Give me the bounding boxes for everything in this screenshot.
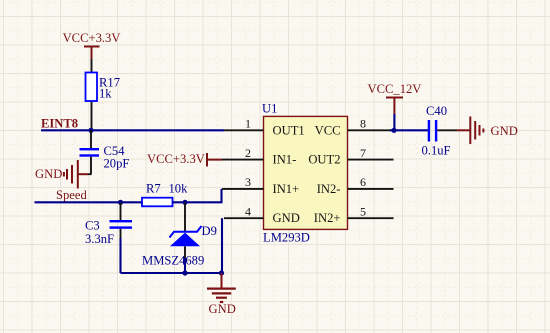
svg-text:VCC+3.3V: VCC+3.3V [147, 152, 205, 166]
svg-text:7: 7 [360, 146, 366, 160]
wire Speed [35, 201, 143, 203]
resistor R1 pins [91, 59, 93, 130]
power VCC_12V [368, 82, 422, 114]
svg-text:20pF: 20pF [104, 157, 130, 171]
capacitor C54 pins [88, 130, 92, 174]
junction D9/bottom [182, 270, 187, 275]
svg-text:GND: GND [209, 302, 236, 316]
junction R7/D9 [182, 200, 187, 205]
svg-text:MMSZ4689: MMSZ4689 [142, 254, 204, 268]
svg-text:OUT1: OUT1 [273, 123, 305, 137]
svg-text:2: 2 [245, 146, 251, 160]
wire C3 to bottom [119, 238, 121, 273]
svg-text:GND: GND [491, 124, 518, 138]
pin 7 [348, 159, 394, 161]
svg-text:IN2+: IN2+ [314, 211, 341, 225]
svg-text:5: 5 [360, 204, 366, 218]
svg-text:VCC_12V: VCC_12V [368, 82, 422, 96]
capacitor C54 [80, 148, 100, 157]
wire pin8 to C40 [390, 129, 429, 131]
pin 5 [348, 217, 394, 219]
svg-text:3.3nF: 3.3nF [85, 232, 114, 246]
diode D9 zener [170, 226, 202, 246]
svg-text:1k: 1k [99, 87, 112, 101]
svg-text:6: 6 [360, 175, 366, 189]
wire EINT8 [41, 129, 224, 131]
wire C40 to gnd [437, 129, 457, 131]
pin 3 [222, 188, 264, 190]
svg-text:U1: U1 [262, 102, 277, 116]
wire D9 to bottom [184, 258, 186, 273]
pin 1 [224, 129, 264, 131]
svg-text:0.1uF: 0.1uF [422, 144, 451, 158]
svg-text:OUT2: OUT2 [308, 153, 340, 167]
svg-text:3: 3 [245, 175, 251, 189]
pin 2 [222, 159, 264, 161]
resistor R17 [86, 73, 98, 102]
svg-text:8: 8 [360, 117, 366, 131]
svg-text:Speed: Speed [56, 188, 87, 202]
svg-text:GND: GND [273, 211, 300, 225]
power VCC+3.3V (top left) [63, 31, 121, 59]
junction EINT8/R17/C54 [88, 128, 93, 133]
pin 8 [348, 129, 394, 131]
svg-text:GND: GND [35, 167, 62, 181]
capacitor C3 pins [120, 202, 122, 238]
wire VCC_12V to pin8 [393, 114, 395, 130]
pin 4 [224, 217, 264, 219]
capacitor C40 [428, 120, 438, 142]
op-amp U1 body [264, 116, 348, 229]
svg-text:EINT8: EINT8 [41, 117, 78, 131]
svg-text:IN1+: IN1+ [273, 182, 300, 196]
wire pin4 down [221, 218, 223, 273]
svg-text:D9: D9 [202, 224, 217, 238]
svg-text:IN1-: IN1- [273, 153, 297, 167]
svg-text:IN2-: IN2- [317, 182, 341, 196]
diode D9 pins [184, 202, 186, 258]
power VCC+3.3V (pin 2) [147, 152, 222, 167]
pin 6 [348, 188, 394, 190]
capacitor C3 [110, 220, 133, 229]
svg-text:C40: C40 [426, 104, 447, 118]
junction pin4/bottom [219, 270, 224, 275]
svg-text:10k: 10k [169, 182, 189, 196]
svg-text:VCC+3.3V: VCC+3.3V [63, 31, 121, 45]
svg-text:1: 1 [245, 117, 251, 131]
ground GND (right, earth style) [457, 117, 483, 145]
ground GND (bottom) [207, 273, 236, 302]
resistor R7 [142, 198, 173, 207]
svg-text:R7: R7 [146, 182, 161, 196]
ground GND (left, earth style) [64, 160, 88, 189]
wire bottom gnd run [121, 272, 222, 274]
junction VCC_12V/pin8 [391, 128, 396, 133]
svg-text:4: 4 [245, 204, 251, 218]
wire R7 to pin3 [173, 189, 222, 202]
junction Speed/C3 [118, 200, 123, 205]
svg-text:VCC: VCC [315, 123, 341, 137]
svg-text:C3: C3 [85, 219, 100, 233]
svg-text:LM293D: LM293D [263, 231, 310, 245]
